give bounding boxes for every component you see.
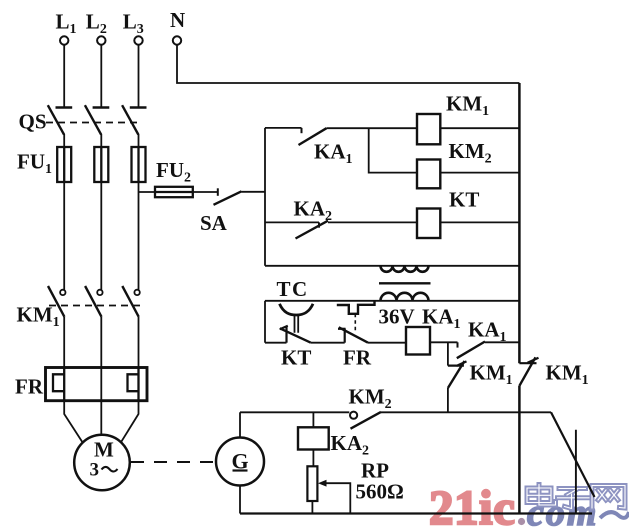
coil KA2 [298, 427, 329, 449]
contact KA1 (lower) tick [457, 342, 459, 347]
terminal L2 [97, 36, 105, 44]
left rail of control box [264, 128, 266, 266]
fuse FU2 [155, 187, 193, 197]
generator G circle [216, 438, 264, 486]
KT contact post [285, 326, 287, 342]
terminal L3 [134, 36, 142, 44]
TC secondary winding [381, 293, 429, 301]
fuse FU1 pole 3 [132, 147, 146, 182]
wires to motor [64, 401, 83, 443]
wire [63, 317, 65, 368]
svg-text:SA: SA [200, 211, 228, 235]
wire to rail [485, 341, 519, 343]
coil KA2 stub [312, 412, 314, 427]
KM2 row wire from G [240, 411, 349, 413]
G bottom wire [239, 486, 241, 514]
wire coil KT to rail [440, 221, 519, 223]
svg-text:FR: FR [15, 375, 44, 399]
big blade bottom right [551, 412, 595, 497]
QS mechanical link (dashed) [46, 122, 141, 124]
secondary bottom row wire [265, 342, 287, 344]
svg-text:3: 3 [90, 460, 100, 481]
secondary left drop [264, 301, 266, 343]
wire [381, 411, 551, 413]
contact KM2 blade [351, 412, 382, 429]
contact KA1 (lower) blade [457, 342, 485, 359]
fuse FU1 pole 1 [57, 147, 71, 182]
contact KM1 NC on rail: stub [519, 362, 536, 364]
bottom rail [240, 512, 592, 514]
terminal N [173, 36, 181, 44]
secondary top line [265, 300, 519, 302]
coil KA1 [406, 327, 430, 355]
wire [368, 342, 406, 344]
wire [63, 134, 65, 147]
svg-text:QS: QS [19, 110, 47, 134]
TC core [379, 282, 431, 284]
KM1 mechanical link (dashed) [49, 305, 140, 307]
watermark 21ic.com 电子网 [429, 480, 629, 532]
transformer TC primary line [265, 265, 519, 267]
wire L3 down [138, 45, 140, 108]
contact KA1 blade [299, 128, 327, 145]
KT contact blade [280, 328, 311, 342]
wire KA2 to RP [312, 450, 314, 467]
RP wiper arrow [324, 483, 350, 513]
svg-text:N: N [170, 8, 185, 32]
svg-text:21ic: 21ic [429, 480, 515, 532]
wire coil KM2 to rail [440, 172, 519, 174]
contact FR post [344, 329, 346, 343]
contactor KM1 main pole 1 [60, 290, 65, 295]
NC KM1 #1 tick [448, 365, 464, 367]
NC KM1 #1 blade [448, 361, 465, 388]
wire down to KM2 row [447, 388, 449, 412]
svg-text:TC: TC [277, 277, 309, 301]
contact KT (delayed) cup [280, 304, 314, 315]
svg-text:G: G [232, 449, 249, 474]
FR dashed link [354, 314, 356, 331]
terminal L1 [60, 36, 68, 44]
thermal relay FR box [46, 368, 148, 401]
contact KA2 terminal tick [318, 222, 320, 227]
svg-text:M: M [94, 438, 114, 462]
FR heater element right [128, 368, 139, 401]
svg-text:36V: 36V [379, 305, 415, 329]
wire L1 down [63, 45, 65, 108]
G underline [233, 469, 248, 471]
wire [311, 342, 345, 344]
KT stem (double line) [295, 316, 299, 333]
wire L2 down [100, 45, 102, 108]
contact KA1 terminal tick [301, 128, 303, 133]
branch to KM2 coil [369, 128, 417, 172]
coil KM1 [417, 114, 440, 144]
wire coil KM1 to rail [440, 127, 519, 129]
wire [430, 341, 458, 343]
svg-text:KT: KT [281, 346, 311, 370]
switch SA [217, 188, 219, 196]
svg-text:FR: FR [343, 346, 372, 370]
wire N down and top rail [177, 45, 519, 83]
vertical wire of big contact [575, 430, 577, 514]
FR blade [339, 327, 368, 342]
fuse FU1 pole 2 [94, 147, 108, 182]
switch QS pole 1 [48, 105, 72, 134]
wire [327, 127, 418, 129]
svg-text:560Ω: 560Ω [356, 480, 404, 504]
right rail lower [518, 386, 521, 514]
contact KM1 NC on rail: blade [519, 357, 535, 386]
KT contact tick [280, 326, 288, 330]
tee to FU2 [139, 191, 156, 193]
motor M circle [74, 435, 130, 491]
wire [328, 221, 417, 223]
contactor KM1 main pole 2 [97, 290, 102, 295]
wire through FR middle [100, 368, 102, 401]
G top wire [239, 412, 241, 437]
potentiometer RP [307, 466, 317, 501]
branch NC KM1 #1 vertical [447, 342, 449, 365]
switch QS pole 2 [85, 105, 109, 134]
switch QS pole 3 [122, 105, 146, 134]
row KA2: wire [265, 221, 319, 223]
contact KA2 blade [296, 221, 329, 239]
right rail upper [518, 83, 521, 363]
RP bottom wire [311, 501, 313, 514]
wire [63, 182, 65, 290]
shaft dashed link M to G [131, 461, 215, 463]
coil KM2 [417, 160, 440, 189]
TC primary winding [381, 266, 429, 272]
wire [193, 191, 218, 193]
FR actuator [337, 301, 375, 314]
contactor KM1 main pole 3 [134, 290, 139, 295]
coil KT [417, 209, 440, 239]
FR tick [338, 328, 346, 330]
svg-text:KT: KT [449, 188, 479, 212]
FR heater element left [53, 368, 64, 401]
row KA1: wire [265, 127, 302, 129]
contact KM2 hinge circle [350, 412, 357, 419]
